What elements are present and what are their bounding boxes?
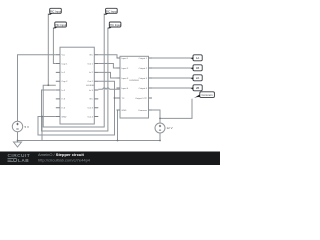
wire IC1 R2 to IC2 Input2: [98, 64, 120, 69]
wire IC2 Output3 to flag 2A: [149, 77, 191, 79]
wire ground bus: [18, 140, 161, 142]
IC U1 controller: [56, 47, 99, 124]
svg-text:Common: Common: [138, 110, 148, 112]
svg-text:Cap 1: Cap 1: [62, 63, 69, 65]
svg-text:NC: NC: [90, 99, 94, 101]
wire IC1 R5 to IC2 Input4 with hops: [98, 88, 120, 90]
svg-text:LAB: LAB: [18, 158, 29, 164]
svg-text:Input 2: Input 2: [122, 67, 129, 70]
wire IC1 R4 down, feeds IC2 Input5, bracket C to IC1 GND pin: [38, 81, 120, 135]
wire flag F2 to IC1 pin L2: [53, 28, 55, 64]
svg-text:5 V: 5 V: [25, 125, 30, 129]
wire 12V source bottom to ground bus: [159, 133, 161, 141]
svg-text:PIC Input: PIC Input: [50, 9, 61, 13]
wire IC2 Output2 to flag 1B: [149, 67, 191, 69]
svg-text:Output 2: Output 2: [139, 67, 148, 70]
wire from 5V source to IC1 Vcc pin: [18, 55, 56, 122]
svg-text:Output 1: Output 1: [139, 57, 148, 60]
svg-text:PIC Input: PIC Input: [55, 23, 66, 27]
wire flag F3 bracket A to IC1 pin L4: [43, 14, 104, 128]
wire from 5V source bottom to ground bus: [17, 132, 19, 142]
svg-text:2B: 2B: [196, 86, 200, 90]
node flag 2A: [190, 75, 202, 81]
node flag Common: [191, 92, 214, 100]
wire IC2 Output1 to flag 1A: [149, 57, 191, 59]
svg-text:HC4066: HC4066: [86, 85, 95, 87]
svg-text:Output 3: Output 3: [139, 77, 148, 80]
svg-text:1B: 1B: [196, 66, 200, 70]
svg-text:Input 4: Input 4: [122, 87, 129, 90]
svg-text:http://circuitlab.com/c/7e44p4: http://circuitlab.com/c/7e44p4: [38, 157, 91, 162]
svg-text:PIC Input: PIC Input: [106, 9, 117, 13]
svg-text:Out 2: Out 2: [87, 80, 93, 83]
node flag 2B: [190, 85, 202, 91]
wire hop bumps over flag nets: [103, 88, 110, 89]
voltage source V1 5V: [12, 121, 22, 131]
svg-text:PIC Input: PIC Input: [109, 23, 120, 27]
svg-text:2A: 2A: [196, 76, 200, 80]
wire flag F1 to IC1 pin L3: [47, 14, 49, 86]
svg-text:Input 3: Input 3: [122, 77, 129, 80]
svg-text:Cap 2: Cap 2: [62, 81, 69, 83]
node flag 1B: [190, 65, 202, 71]
wire IC1 GND down to ground bus: [41, 117, 43, 141]
wire IC1 R1 to IC2 Input1: [98, 55, 120, 58]
svg-text:Common: Common: [202, 93, 213, 97]
wire flag F4 bracket B to IC1 pin L5: [42, 28, 108, 132]
wire Common flag riser to 12V junction: [160, 99, 192, 119]
footer bar: [0, 152, 220, 166]
wire IC2 Output4 to flag 2B: [149, 87, 191, 89]
svg-text:Out 3: Out 3: [87, 107, 93, 110]
ground symbol: [14, 142, 22, 147]
node flag PIC Input F4: [108, 22, 121, 29]
voltage source V2 12V: [155, 123, 165, 133]
node flag PIC Input F2: [53, 22, 66, 29]
IC U2 driver ULN2003: [117, 56, 153, 118]
svg-text:GND: GND: [62, 116, 67, 118]
svg-text:1A: 1A: [196, 56, 200, 60]
svg-text:ULN2003: ULN2003: [129, 80, 139, 82]
wire IC2 GND down to ground bus: [118, 110, 121, 141]
svg-text:TC: TC: [122, 98, 125, 100]
svg-text:NC: NC: [90, 55, 94, 57]
junction dots: [17, 84, 161, 141]
svg-text:GND: GND: [122, 110, 127, 112]
svg-text:12 V: 12 V: [167, 126, 173, 130]
svg-text:Output 5 TP: Output 5 TP: [135, 97, 147, 100]
node flag PIC Input F1: [48, 8, 61, 15]
svg-text:Out 4: Out 4: [87, 115, 93, 118]
node flag PIC Input F3: [104, 8, 117, 15]
svg-text:Out 1: Out 1: [87, 62, 93, 65]
node flag 1A: [190, 55, 202, 61]
wire IC2 Common pin to 12V junction: [149, 110, 161, 123]
wire IC1 R3 to IC2 Input3: [98, 72, 120, 78]
svg-text:Input 1: Input 1: [122, 57, 129, 60]
svg-text:Output 4: Output 4: [139, 87, 148, 90]
